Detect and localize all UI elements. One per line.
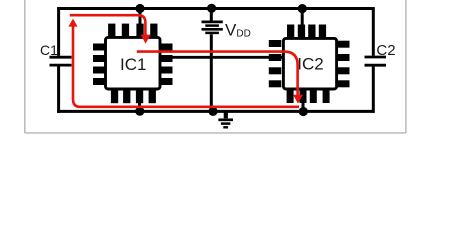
junction bottom rail at VDD/ground — [208, 107, 217, 116]
junction bottom rail at IC2 — [299, 107, 308, 116]
current arrow down to ground rail — [293, 95, 303, 104]
svg-text:C2: C2 — [376, 42, 395, 59]
wire: IC1 to IC2 signal — [160, 56, 284, 59]
wire: left edge upper segment (to C1) — [57, 7, 60, 56]
IC2 pins top — [287, 25, 326, 38]
IC1 pins bottom — [111, 90, 156, 103]
junction top rail at VDD — [207, 4, 216, 13]
IC1 pins top — [108, 24, 157, 37]
capacitor C1 — [50, 57, 72, 65]
current loop return path (bottom) — [73, 27, 299, 107]
current path IC1 to IC2 — [137, 52, 298, 95]
junction bottom rail at IC1 — [135, 107, 144, 116]
svg-text:IC1: IC1 — [120, 55, 146, 74]
current arrow down into IC1 — [141, 35, 151, 44]
ground — [218, 111, 233, 127]
svg-text:C1: C1 — [40, 42, 58, 58]
figure border (gray crop box) — [25, 0, 406, 133]
wire: right edge lower segment (from C2) — [372, 67, 375, 113]
wire: IC1 VDD pin to top rail — [139, 9, 142, 37]
battery VDD — [202, 9, 223, 112]
wire: top supply rail — [57, 7, 374, 10]
wire: right edge upper segment (to C2) — [372, 7, 375, 56]
capacitor C2 — [365, 57, 387, 65]
svg-text:VDD: VDD — [225, 20, 251, 39]
junction top rail at IC2 — [298, 4, 307, 13]
wire: IC1 GND pin to bottom rail — [138, 90, 141, 111]
IC2 pins bottom — [287, 90, 330, 103]
IC1 pins left — [93, 44, 105, 86]
current path top into IC1 — [70, 15, 146, 35]
current arrow up at C1 — [68, 19, 77, 27]
IC2 body — [283, 38, 336, 89]
junction top rail at IC1 — [135, 4, 144, 13]
IC1 pins right — [161, 44, 173, 86]
svg-text:IC2: IC2 — [297, 55, 323, 74]
IC2 pins left — [269, 40, 282, 87]
wire: bottom ground rail — [57, 110, 374, 113]
wire: IC2 VDD pin to top rail — [301, 9, 304, 38]
IC1 body — [106, 37, 161, 89]
IC2 pins right — [337, 41, 350, 88]
wire: left edge lower segment (from C1) — [57, 66, 60, 113]
wire: IC2 GND pin to bottom rail — [302, 90, 305, 111]
